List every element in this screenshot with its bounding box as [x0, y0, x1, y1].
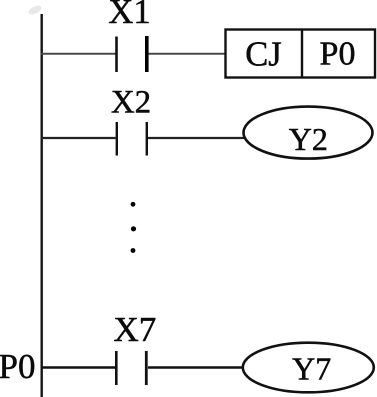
svg-text:P0: P0: [320, 35, 356, 72]
svg-text:P0: P0: [0, 347, 35, 386]
svg-text:X1: X1: [108, 0, 150, 31]
svg-text:Y7: Y7: [292, 351, 331, 387]
svg-text:X7: X7: [114, 310, 157, 349]
svg-text:X2: X2: [111, 84, 151, 120]
svg-text:Y2: Y2: [289, 121, 328, 157]
svg-text:CJ: CJ: [245, 35, 281, 73]
